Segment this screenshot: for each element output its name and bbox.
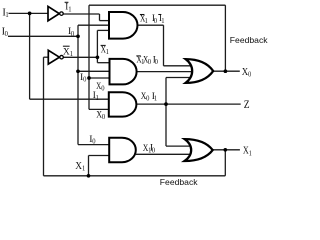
inverter NOT1 (I1bar) <box>48 6 59 20</box>
AND gate (X0 I1) <box>109 92 137 116</box>
node I0 branch <box>76 34 80 38</box>
svg-text:Feedback: Feedback <box>230 35 268 45</box>
svg-text:1: 1 <box>82 164 86 172</box>
svg-text:0: 0 <box>152 146 156 154</box>
svg-text:Feedback: Feedback <box>160 177 198 187</box>
wire X1bar to AND2 top input <box>97 62 110 64</box>
AND gate (X1bar X0 I0) <box>110 59 137 85</box>
svg-text:1: 1 <box>70 50 74 58</box>
wire NOT2 output (X1bar) <box>63 56 97 58</box>
svg-text:1: 1 <box>106 48 110 56</box>
wire X0 vertical <box>88 5 90 109</box>
wire X1 feedback to NOT2 input <box>44 56 49 58</box>
svg-text:1: 1 <box>161 17 165 25</box>
wire I0 to AND4 top input <box>78 144 109 146</box>
AND gate (X1bar I0 I1bar) <box>109 12 137 39</box>
wire AND4 output to OR2 <box>136 153 193 155</box>
svg-text:0: 0 <box>92 137 96 145</box>
wire X1 feedback left vertical <box>43 57 45 176</box>
node X1 feedback branch <box>87 174 91 178</box>
svg-text:0: 0 <box>102 113 106 121</box>
wire I1 branch down <box>29 13 31 99</box>
wire X1bar vertical <box>96 30 98 62</box>
wire X0 feedback top <box>89 4 225 6</box>
wire I1 input <box>9 12 49 14</box>
svg-text:0: 0 <box>154 16 158 24</box>
node X0 output <box>224 69 228 73</box>
wire I1 to AND3 top input <box>30 98 110 100</box>
node X1bar branch <box>96 55 100 59</box>
svg-text:0: 0 <box>71 30 75 38</box>
wire AND1 output down <box>163 25 165 66</box>
svg-text:0: 0 <box>146 94 150 102</box>
svg-text:1: 1 <box>249 150 252 158</box>
svg-text:1: 1 <box>5 11 9 19</box>
wire NOT1 output (I1bar) <box>63 13 100 15</box>
wire X0 to AND2 bottom input <box>89 77 110 79</box>
wire X1 branch up to AND4 <box>88 156 90 176</box>
wire X1 to AND4 bottom input <box>89 155 110 157</box>
wire I0 input <box>8 35 78 37</box>
wire X0I1 to OR1 bottom input <box>166 77 193 79</box>
wire X0 feedback right vertical <box>224 5 226 71</box>
wire I1bar to AND1 top input <box>100 20 111 22</box>
wire I0 to AND2 middle input <box>78 70 110 72</box>
wire AND2 output to OR1 <box>137 71 193 73</box>
node I0-AND2 branch <box>76 69 80 73</box>
svg-text:X: X <box>75 161 82 172</box>
wire X0I1 vertical branch <box>165 78 167 147</box>
wire X0I1 to OR2 top input <box>166 145 193 147</box>
svg-text:1: 1 <box>68 5 72 13</box>
wire OR1 output X0 <box>213 70 240 72</box>
svg-text:0: 0 <box>83 75 87 83</box>
OR gate (X0 next-state) <box>186 59 214 83</box>
node I1 branch <box>28 12 32 16</box>
wire AND1 output to OR1 <box>164 65 194 67</box>
svg-text:1: 1 <box>145 17 149 25</box>
inverter NOT2 (X1bar) <box>48 50 59 64</box>
svg-text:Z: Z <box>244 98 250 111</box>
svg-text:1: 1 <box>154 94 158 102</box>
wire I1bar step down <box>99 14 101 21</box>
wire X0 to AND3 bottom input <box>89 108 109 110</box>
wire X1 feedback bottom <box>44 175 226 177</box>
wire AND1 output <box>138 24 164 26</box>
AND gate (X1 I0) <box>109 138 136 163</box>
node X0I1 / Z branch <box>164 102 168 106</box>
wire X1 feedback down <box>224 150 226 176</box>
wire AND3 output / Z line <box>136 103 240 105</box>
wire I0 to AND1 middle input <box>78 24 110 26</box>
svg-text:0: 0 <box>155 58 159 66</box>
svg-text:0: 0 <box>101 84 105 92</box>
svg-text:0: 0 <box>5 30 9 38</box>
OR gate (X1 next-state) <box>185 139 213 161</box>
wire I0 vertical <box>77 25 79 144</box>
svg-text:X: X <box>242 66 248 78</box>
wire X1bar to AND1 bottom input <box>97 29 110 31</box>
wire OR2 output X1 <box>213 149 240 151</box>
svg-text:X: X <box>63 46 70 57</box>
node X0-AND2 branch <box>87 76 91 80</box>
node X1 output <box>223 148 227 152</box>
svg-text:0: 0 <box>148 58 152 66</box>
svg-text:1: 1 <box>96 93 100 101</box>
